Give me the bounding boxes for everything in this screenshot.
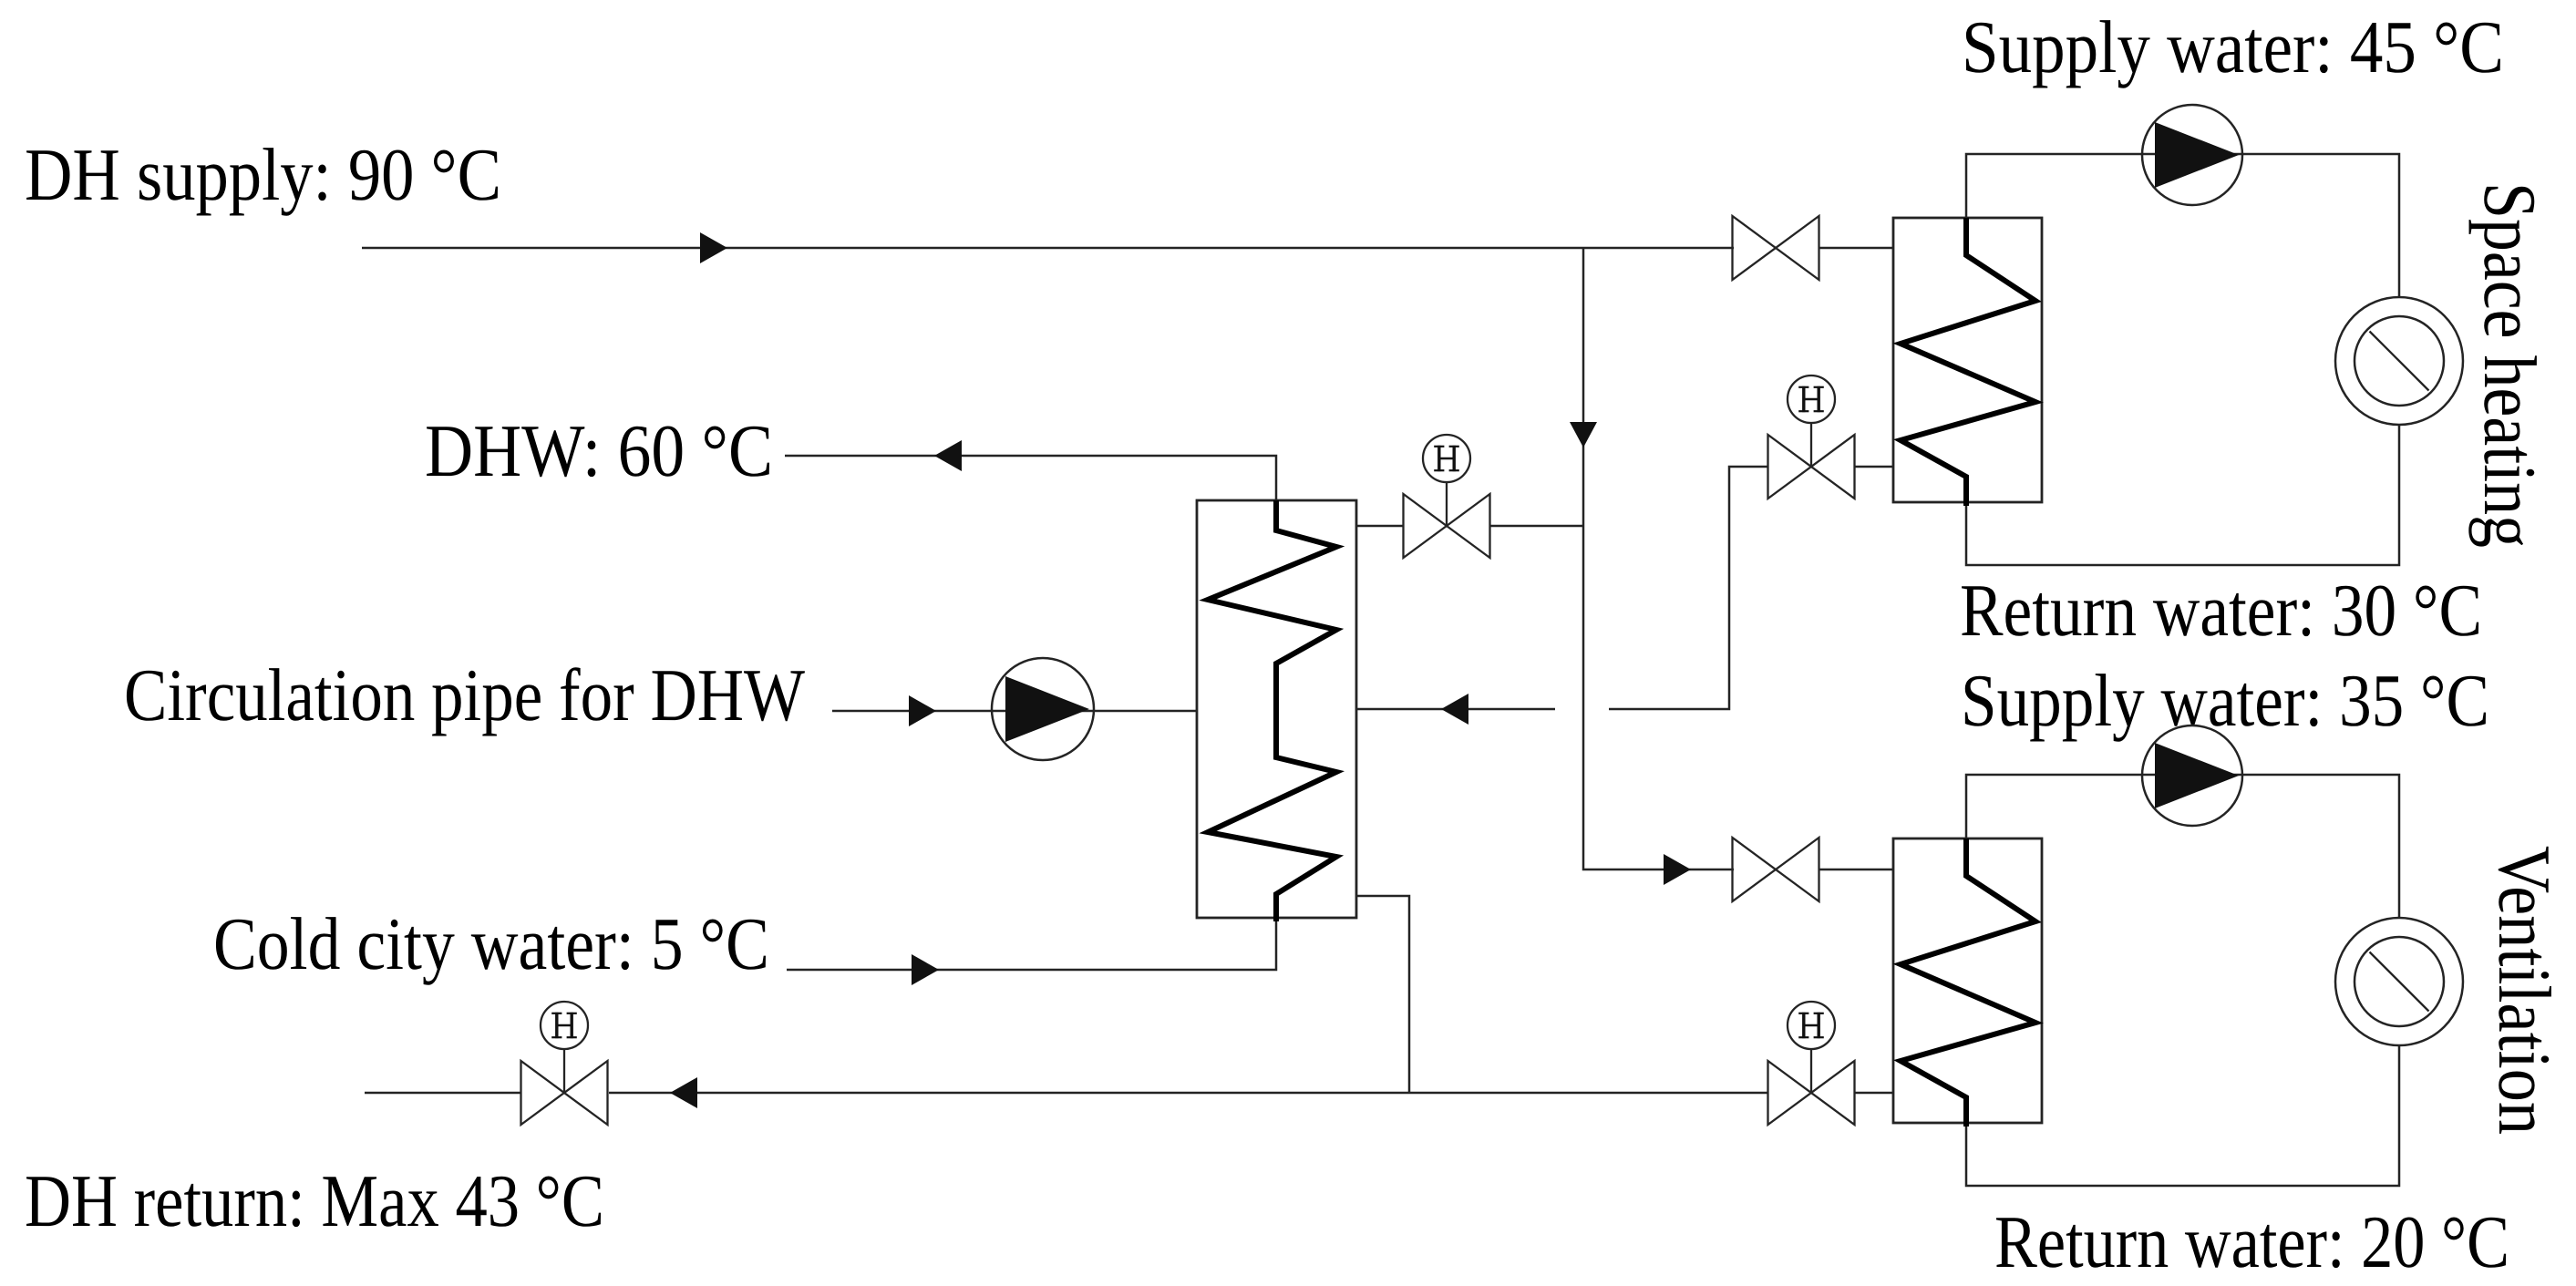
svg-text:Cold city water: 5 °C: Cold city water: 5 °C bbox=[213, 902, 769, 985]
svg-text:Supply water: 45 °C: Supply water: 45 °C bbox=[1962, 5, 2504, 88]
arrow: circulation flow right bbox=[909, 695, 936, 726]
valve: ventilation control valve with actuator H bbox=[1768, 1002, 1855, 1125]
valve: DHW control valve with actuator H bbox=[1404, 435, 1490, 558]
pump: DHW circulation pump bbox=[992, 658, 1094, 760]
svg-text:Circulation pipe for DHW: Circulation pipe for DHW bbox=[124, 653, 806, 736]
load: ventilation coil symbol bbox=[2335, 918, 2463, 1045]
wire: space heating control valve to HX bbox=[1854, 466, 1893, 468]
wire: DHW outlet pipe bbox=[785, 456, 1276, 500]
wire: DHW HX to DHW control valve bbox=[1356, 525, 1404, 528]
heat exchanger: space heating bbox=[1893, 218, 2042, 506]
wire: ventilation control valve to ventilation HX bbox=[1854, 1092, 1893, 1095]
arrow: return-to-DHW-HX flow left bbox=[1441, 694, 1468, 725]
wire: cold city water pipe bbox=[787, 918, 1276, 970]
valve: space heating control valve with actuator H bbox=[1768, 376, 1855, 499]
wire: ventilation secondary loop bbox=[1966, 775, 2399, 1186]
svg-text:DH return: Max 43 °C: DH return: Max 43 °C bbox=[25, 1159, 604, 1242]
arrow: cold water flow right bbox=[912, 954, 939, 985]
wire: space heating secondary loop bbox=[1966, 154, 2399, 565]
wire: DHW control valve to branch bbox=[1490, 525, 1583, 528]
arrow: DH supply flow right bbox=[700, 232, 727, 263]
heat exchanger: DHW (domestic hot water) bbox=[1197, 500, 1356, 921]
svg-text:DHW: 60 °C: DHW: 60 °C bbox=[425, 409, 773, 492]
svg-text:Space heating: Space heating bbox=[2468, 182, 2551, 548]
arrow: DH return flow left bbox=[670, 1077, 697, 1108]
arrow: ventilation branch flow right bbox=[1664, 854, 1691, 885]
svg-text:Return water: 30 °C: Return water: 30 °C bbox=[1960, 569, 2482, 652]
pump: ventilation circulation pump bbox=[2142, 725, 2242, 826]
svg-text:Supply water: 35 °C: Supply water: 35 °C bbox=[1961, 659, 2489, 742]
arrow: DHW flow left bbox=[934, 440, 962, 471]
wire: DHW HX primary outlet down to DH return bbox=[1356, 896, 1409, 1093]
heat exchanger: ventilation bbox=[1893, 838, 2042, 1127]
wire: space heating return into DHW HX (left of crossing gap) bbox=[1356, 708, 1555, 711]
wire: DH return pipe main run bbox=[609, 1092, 1767, 1095]
valve: DH supply shut-off (space heating branch) bbox=[1733, 216, 1819, 280]
wire: DH return pipe left of valve bbox=[365, 1092, 520, 1095]
wire: space heating return down-leg (right of crossing gap) bbox=[1609, 467, 1767, 709]
wire: circulation pipe for DHW bbox=[832, 710, 1197, 713]
load: space heating radiator symbol bbox=[2335, 297, 2463, 425]
wire: supply branch down and to ventilation valve bbox=[1583, 248, 1734, 869]
svg-text:DH supply: 90 °C: DH supply: 90 °C bbox=[25, 133, 501, 216]
valve: ventilation branch shut-off bbox=[1733, 838, 1819, 901]
svg-text:Return water: 20 °C: Return water: 20 °C bbox=[1994, 1200, 2509, 1283]
arrow: branch flow down bbox=[1570, 422, 1597, 448]
pump: space heating circulation pump bbox=[2142, 105, 2242, 205]
svg-text:Ventilation: Ventilation bbox=[2483, 846, 2566, 1135]
valve: DH return control valve with actuator H bbox=[521, 1002, 608, 1125]
wire: DH supply valve to space heating HX bbox=[1819, 247, 1893, 250]
wire: DH supply pipe to valve bbox=[362, 247, 1734, 250]
wire: ventilation valve to ventilation HX bbox=[1819, 869, 1893, 871]
